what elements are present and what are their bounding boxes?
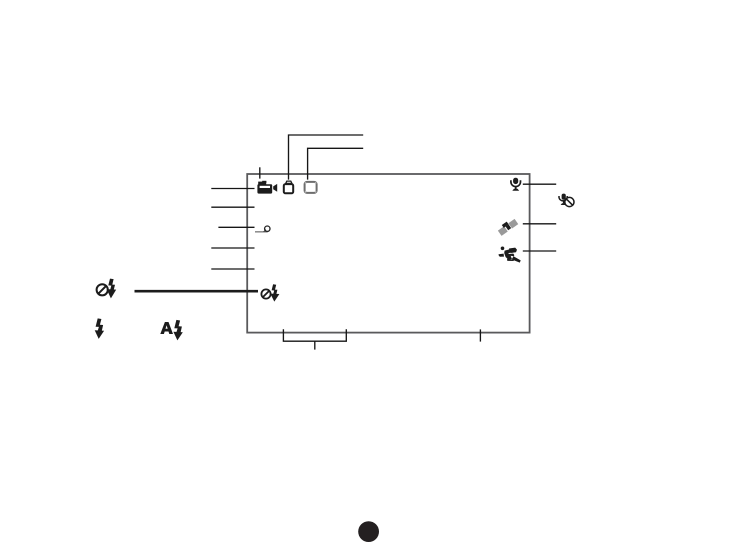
callout tick bottom right bbox=[479, 329, 481, 341]
media icon (SD slot) bbox=[284, 181, 293, 193]
flash off icon (outside left) bbox=[97, 279, 117, 299]
callout tick top (above camcorder icon) bbox=[259, 167, 261, 178]
frame icon (rounded square with corner dots) bbox=[305, 182, 317, 193]
callout line right 1 (mic) bbox=[523, 183, 556, 185]
callout line left 2 bbox=[211, 206, 254, 208]
LCD monitor frame bbox=[247, 174, 529, 333]
scene icon (ring with tail) bbox=[255, 226, 270, 232]
callout line left 5 bbox=[211, 268, 254, 270]
auto flash icon (A + bolt) bbox=[160, 320, 183, 341]
page number dot bbox=[358, 521, 379, 542]
callout line left 4 bbox=[211, 247, 254, 249]
mic off icon (outside right) bbox=[559, 194, 574, 207]
bottom bracket bbox=[283, 329, 346, 341]
microphone icon bbox=[511, 178, 521, 191]
callout line right 2 (satellite) bbox=[523, 223, 556, 225]
callout line B (frame icon) bbox=[308, 148, 364, 179]
callout line flash (thick) bbox=[135, 290, 259, 293]
callout line right 3 (runner) bbox=[523, 250, 556, 252]
flash bolt icon bbox=[95, 318, 104, 339]
satellite icon (GPS) bbox=[497, 217, 519, 236]
bottom bracket stem bbox=[314, 341, 316, 349]
callout line left 3 (scene icon) bbox=[218, 226, 254, 228]
callout line A (media icon) bbox=[289, 135, 364, 180]
runner icon (auto rec) bbox=[499, 247, 521, 263]
camcorder icon (video mode) bbox=[257, 181, 277, 194]
callout line left 1 (recording mode) bbox=[211, 188, 254, 190]
flash off icon (inside display) bbox=[261, 284, 279, 301]
